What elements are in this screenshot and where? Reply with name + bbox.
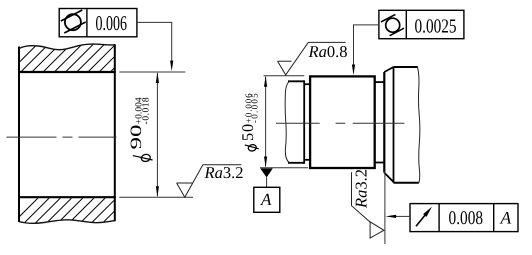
- bore top surface: [18, 71, 116, 73]
- relief groove right bottom: [375, 162, 385, 164]
- datum A triangle: [260, 168, 273, 177]
- datum A leader: [266, 178, 268, 188]
- relief groove right top: [375, 81, 385, 83]
- hatch top band lines: [7, 39, 155, 75]
- svg-text:-0.018: -0.018: [142, 97, 152, 124]
- shaft centerline: [276, 122, 404, 124]
- flange face line: [383, 72, 385, 173]
- dimension text phi50 +0.006/-0.005: [248, 144, 257, 152]
- svg-text:0.008: 0.008: [449, 208, 484, 229]
- extension line phi50 top: [264, 75, 305, 77]
- svg-text:90: 90: [128, 124, 145, 149]
- FCF2 frame (cylindricity 0.0025): [379, 10, 464, 38]
- flange chamfer bottom: [384, 173, 393, 182]
- leader FCF3: [395, 215, 410, 217]
- roughness Ra0.8 symbol: [278, 42, 346, 75]
- relief groove left bottom: [304, 159, 310, 161]
- leader FCF1 arrow: [170, 61, 173, 72]
- arrow phi90 bottom: [156, 186, 159, 197]
- svg-text:-0.005: -0.005: [250, 93, 260, 123]
- bore break line bottom (wavy): [19, 220, 115, 224]
- bore right wall edge: [114, 44, 116, 221]
- flange bottom edge: [394, 182, 419, 184]
- dimension line phi50: [265, 77, 267, 167]
- extension line phi90 bottom: [119, 196, 193, 198]
- flange chamfer projection line: [393, 67, 395, 183]
- hatch bottom band lines: [8, 192, 156, 228]
- bore left wall edge: [18, 47, 20, 223]
- leader FCF1: [137, 22, 172, 62]
- FCF1 cylindricity symbol: [61, 10, 86, 33]
- FCF3 circular runout symbol: [416, 215, 425, 226]
- svg-text:Ra3.2: Ra3.2: [204, 163, 244, 182]
- arrow phi50 top: [264, 76, 267, 87]
- svg-text:Ra3.2: Ra3.2: [352, 169, 371, 209]
- svg-text:50: 50: [238, 123, 257, 141]
- extension line phi90 top: [119, 71, 185, 73]
- svg-text:0.0025: 0.0025: [415, 16, 457, 38]
- journal phi50 outline: [310, 76, 375, 168]
- bore break line top (wavy): [19, 44, 115, 50]
- leader FCF2 arrow: [352, 65, 355, 76]
- arrow phi90 top: [156, 72, 159, 83]
- shaft left section right face: [303, 80, 305, 163]
- svg-text:Ra0.8: Ra0.8: [308, 42, 348, 61]
- svg-text:A: A: [499, 208, 511, 228]
- flange chamfer top: [384, 67, 393, 72]
- bore bottom surface: [18, 196, 116, 198]
- svg-text:0.006: 0.006: [96, 11, 128, 35]
- arrow phi50 bottom: [264, 157, 267, 168]
- FCF1 frame (cylindricity 0.006): [59, 9, 137, 37]
- leader FCF2: [354, 25, 379, 66]
- dimension text phi90 +0.004/-0.018: [141, 154, 151, 163]
- shaft left section top edge: [288, 80, 304, 82]
- FCF3 frame (circular runout 0.008 A): [410, 204, 518, 232]
- flange top edge: [394, 66, 418, 68]
- roughness Ra3.2 right symbol (rotated): [352, 172, 384, 238]
- roughness Ra3.2 right extension line: [384, 171, 386, 244]
- extension line phi50 bottom: [260, 167, 308, 169]
- roughness Ra3.2 right text (rotated): [352, 169, 371, 209]
- flange break line (wavy right): [418, 67, 420, 183]
- roughness Ra3.2 left: [177, 165, 242, 198]
- leader FCF3 arrow: [385, 215, 396, 218]
- bore centerline: [7, 136, 123, 138]
- svg-text:A: A: [260, 190, 272, 209]
- shaft left section break line (wavy): [285, 81, 290, 163]
- relief groove left top: [304, 83, 310, 85]
- datum A box: [254, 187, 280, 212]
- dimension line phi90: [156, 73, 158, 196]
- FCF2 cylindricity symbol: [381, 14, 404, 35]
- shaft left section bottom edge: [288, 162, 304, 164]
